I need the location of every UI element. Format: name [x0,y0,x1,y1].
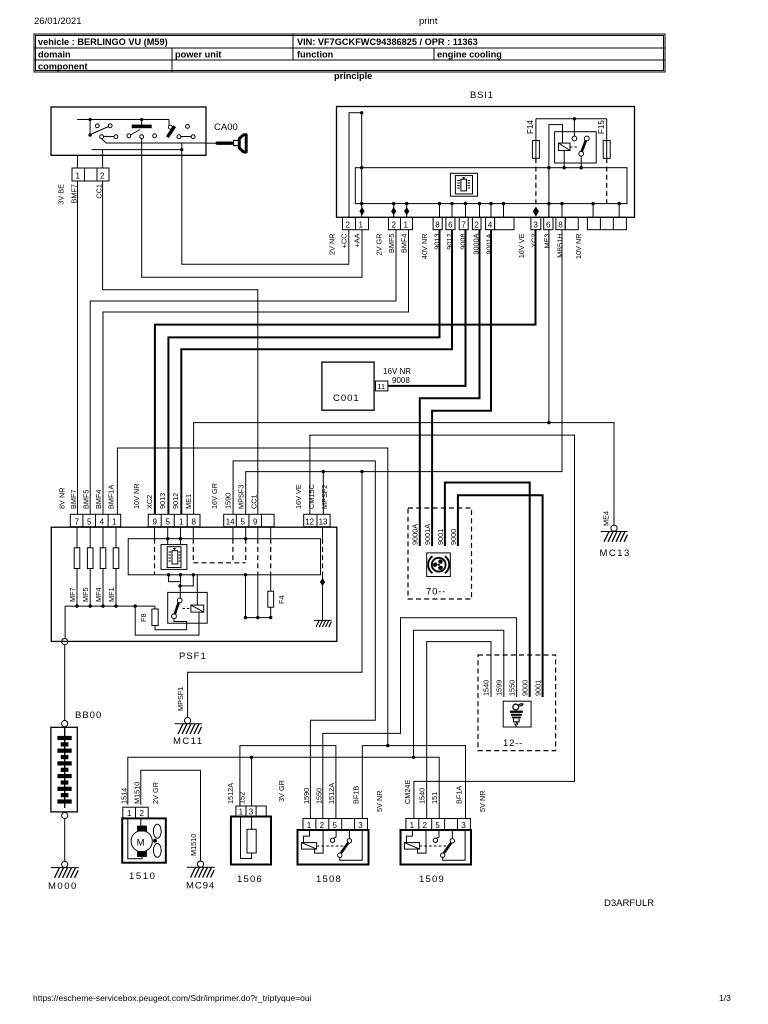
svg-text:8: 8 [192,517,197,526]
svg-text:70--: 70-- [426,587,446,598]
svg-text:4: 4 [100,517,105,526]
PSF1 pin stubs into box [77,527,323,548]
svg-text:8: 8 [435,220,440,229]
fuse F4 [268,575,286,618]
wire F14 top to F15 top [536,117,607,120]
svg-text:1510: 1510 [129,871,157,882]
CA00 internal bottom rails [92,139,206,156]
svg-text:5: 5 [87,517,92,526]
svg-text:2: 2 [140,809,145,818]
svg-text:1512A: 1512A [226,783,235,804]
BSI1 inner band [355,168,627,204]
svg-text:16V GR: 16V GR [210,483,219,509]
svg-text:MPSF3: MPSF3 [237,485,246,509]
svg-text:MF4: MF4 [94,587,103,602]
svg-text:1540: 1540 [482,680,491,696]
dashed F15 to band [606,158,608,203]
CA00 internal top bus [77,118,169,121]
svg-text:1508: 1508 [316,874,342,885]
BSI1 band connector symbol [450,173,477,196]
wire 1590 PSF1 to relay 1508 pin1 [233,461,375,819]
svg-text:domain: domain [38,50,71,60]
svg-text:BF1B: BF1B [352,786,361,804]
svg-text:5: 5 [333,821,338,830]
svg-text:BMF5: BMF5 [387,234,396,253]
BSI1 pin labels row4 [517,233,565,258]
svg-text:ME3: ME3 [543,234,552,249]
fuse F8 [139,606,187,630]
PSF1 pin labels group B [132,483,193,509]
svg-text:F8: F8 [139,613,148,622]
svg-text:10V NR: 10V NR [574,234,583,260]
wire 9000 fan 70 to 12 [458,495,543,697]
svg-text:2V GR: 2V GR [375,234,384,256]
svg-text:9001A: 9001A [423,524,432,545]
PSF1 supply bus [65,604,155,607]
wire 1550 12 to relay 1508 pin2 [323,618,517,819]
PSF1 pin labels group A [58,485,116,509]
svg-text:3: 3 [461,821,466,830]
relay 1509 [401,780,488,885]
BSI1 pin labels row3 [420,233,494,259]
relay 1508 [298,783,385,885]
svg-text:ME1: ME1 [184,494,193,509]
CA00 connector pins 1 and 2 [72,155,109,181]
PSF1 pin box C 14 5 9 blank [224,514,274,526]
svg-text:component: component [38,62,88,72]
PSF1 pin labels group C [210,483,259,509]
ground MC11 [173,687,204,747]
svg-text:2: 2 [474,220,479,229]
svg-text:40V NR: 40V NR [420,234,429,260]
svg-text:1: 1 [359,220,364,229]
svg-text:CC1: CC1 [250,494,259,509]
svg-text:CA00: CA00 [214,122,238,133]
svg-text:engine cooling: engine cooling [437,50,502,60]
PSF1 bottom terminal to battery [62,606,68,645]
svg-text:1590: 1590 [302,788,311,804]
svg-text:1: 1 [76,172,81,181]
svg-text:9013: 9013 [158,493,167,509]
svg-text:ME4: ME4 [602,511,611,526]
svg-text:1: 1 [127,809,132,818]
svg-text:vehicle : BERLINGO VU (M59): vehicle : BERLINGO VU (M59) [38,37,168,47]
svg-text:F15: F15 [597,120,606,134]
BSI1 pin labels row2 [375,234,409,256]
svg-text:12: 12 [305,517,314,526]
svg-text:13: 13 [319,517,328,526]
wire 1599 12 to junction [414,630,504,757]
svg-text:2: 2 [423,821,428,830]
svg-text:9000A: 9000A [411,524,420,545]
svg-text:BB00: BB00 [75,710,102,721]
svg-text:9: 9 [153,517,158,526]
svg-text:MPSF1: MPSF1 [176,687,185,711]
svg-text:function: function [297,50,334,60]
PSF1 inner band [128,539,320,575]
CA00 key symbol [206,135,246,152]
ground M000 [48,861,79,892]
wire 1540 12 to relay 1509 pin2 [427,642,491,819]
wire BMF1A PSF1 to BF1 line [117,448,389,747]
svg-text:9001: 9001 [436,529,445,545]
wire BMF4 PSF1 to BSI1 [103,230,409,515]
dashed F14 to pin3 [533,158,539,216]
svg-text:14: 14 [226,517,235,526]
svg-text:1: 1 [112,517,117,526]
svg-text:9: 9 [253,517,258,526]
svg-text:5: 5 [435,821,440,830]
svg-text:print: print [419,16,438,27]
svg-text:10V NR: 10V NR [132,483,141,509]
svg-text:9000: 9000 [520,680,529,696]
ground MC13 [600,511,631,559]
electric fan unit 70 dashed box [408,508,472,599]
svg-text:6: 6 [448,220,453,229]
wire BMF5 PSF1 to BSI1 [90,230,396,515]
svg-text:1506: 1506 [237,874,263,885]
BSI1 band bottom stubs and dots [360,168,621,218]
wire 9008 BSI1 to C001 pin11 [388,230,466,386]
resistor 1506 [226,780,286,885]
svg-text:9012: 9012 [171,493,180,509]
PSF1 relay top feed stubs [167,573,195,598]
PSF1 dashed internals [155,539,323,575]
fuse F14 [526,119,539,159]
svg-text:F14: F14 [526,120,535,134]
wire MPSF3 MPSF2 MB51H net [246,230,562,515]
wire PSF1 to battery [64,645,66,721]
svg-text:1550: 1550 [315,788,324,804]
wire ME3 BSI1 down [547,230,550,425]
PSF1 band connector symbol [161,545,187,570]
ground MC94 [186,834,215,892]
BSI1 pin row 1 (2|1) [343,217,369,229]
svg-text:D3ARFULR: D3ARFULR [604,898,654,909]
PSF1 pin box B 9 5 1 8 [148,514,200,526]
wire battery to M000 [64,819,66,862]
fuse MF1 [107,548,119,606]
svg-text:5: 5 [241,517,246,526]
svg-text:16V VE: 16V VE [294,484,303,509]
wire M1510 to MC94 [141,770,201,861]
svg-text:M1510: M1510 [133,782,142,804]
fuse MF5 [81,548,93,606]
svg-text:7: 7 [75,517,80,526]
CA00 switch contact set 1 [88,120,117,144]
svg-text:principle: principle [334,71,372,81]
svg-text:M1510: M1510 [189,834,198,856]
svg-text:power unit: power unit [175,50,221,60]
label 3V BE BMF7 [57,184,79,205]
svg-text:4: 4 [488,220,493,229]
wire +AA CA00 to BSI1 [142,155,362,277]
wire CM15C PSF1 to relay 1509 pin1 [310,435,575,818]
svg-text:9001: 9001 [533,680,542,696]
svg-text:1514: 1514 [120,788,129,804]
svg-text:2: 2 [320,821,325,830]
wire ME1 PSF1 to MC13 [194,423,614,525]
fuse F15 [597,119,610,159]
svg-text:1: 1 [410,821,415,830]
svg-text:1: 1 [239,808,244,817]
svg-text:+CC: +CC [340,234,349,249]
svg-text:3: 3 [249,808,254,817]
svg-text:2: 2 [392,220,397,229]
BSI1 outer box [337,107,635,218]
svg-text:1512A: 1512A [327,783,336,804]
svg-text:1509: 1509 [419,874,445,885]
svg-text:MF7: MF7 [68,587,77,602]
wire 9000A BSI1 to fan 70 [420,230,480,546]
thermal switch 12 dashed box [478,655,556,751]
PSF1 pin box D 12 13 [304,514,330,526]
svg-text:https://escheme-servicebox.peu: https://escheme-servicebox.peugeot.com/S… [33,993,312,1003]
BSI1 relay coil feed from pin6 [547,125,562,218]
svg-text:BSI1: BSI1 [470,90,494,101]
motor 1510 [120,782,166,882]
svg-text:M: M [137,838,145,849]
svg-text:11: 11 [378,382,386,391]
svg-text:1590: 1590 [224,493,233,509]
svg-text:MPSF2: MPSF2 [320,485,329,509]
svg-text:152: 152 [238,792,247,804]
svg-text:1599: 1599 [495,680,504,696]
svg-text:3V GR: 3V GR [277,780,286,802]
svg-text:1/3: 1/3 [719,993,731,1003]
svg-text:MC13: MC13 [600,548,631,559]
svg-text:3V BE: 3V BE [57,184,66,205]
svg-text:XC2: XC2 [530,234,539,248]
connector C001 [322,362,411,410]
svg-text:2: 2 [346,220,351,229]
svg-text:5V NR: 5V NR [478,791,487,813]
wire +CC CA00 to BSI1 [182,155,349,264]
BSI1 pin row 5 (right blanks) [587,217,626,229]
svg-text:12--: 12-- [503,738,523,749]
BSI1 pin row 3 (8 6 7 2 4 blank) [433,217,514,229]
svg-text:26/01/2021: 26/01/2021 [34,16,82,27]
CA00 switch contact set 2 (ACC bar) [127,120,157,139]
BSI1 internal feed from pin2 [349,111,363,217]
junction line 1514 152 1599 151 [128,756,439,819]
BSI1 pin row 2 (2|1) [389,217,413,229]
fuse MF7 [68,548,80,606]
battery BB00 [51,710,102,819]
svg-text:3: 3 [533,220,538,229]
PSF1 pin labels group D [294,484,329,509]
wire CC1 CA00 pin2 to PSF1 pin9 [103,181,258,514]
svg-text:1: 1 [179,517,184,526]
svg-text:1540: 1540 [418,788,427,804]
svg-text:8: 8 [558,220,563,229]
svg-text:MC11: MC11 [173,736,204,747]
svg-text:BMF1A: BMF1A [107,485,116,509]
BSI1 relay box [555,119,597,170]
svg-text:XC2: XC2 [145,495,154,509]
svg-text:16V NR: 16V NR [383,367,411,376]
svg-text:MF5: MF5 [81,587,90,602]
svg-text:M000: M000 [48,881,78,892]
wire BMF7 CA00 pin1 to PSF1 pin7 [77,181,79,514]
PSF1 internal ground [314,575,332,627]
BSI1 pin labels row1 [328,233,362,255]
svg-text:8V NR: 8V NR [58,488,67,510]
header table [34,34,665,72]
svg-text:9001A: 9001A [485,233,494,254]
svg-text:2V GR: 2V GR [151,782,160,804]
svg-text:5V NR: 5V NR [375,791,384,813]
junction diamonds under band [359,207,409,215]
svg-text:BF1A: BF1A [455,786,464,804]
PSF1 coil feed wire [135,606,199,635]
svg-text:6: 6 [546,220,551,229]
PSF1 pin box A 7 5 4 1 [70,514,120,526]
fuse MF4 [94,548,106,606]
svg-text:+AA: +AA [353,233,362,247]
svg-text:BMF7: BMF7 [69,490,78,509]
svg-text:PSF1: PSF1 [179,651,207,662]
svg-text:7: 7 [461,220,466,229]
svg-text:F4: F4 [277,595,286,604]
svg-text:MC94: MC94 [186,881,215,892]
wire XC2 PSF1 to BSI1 [155,230,536,515]
svg-text:2: 2 [100,172,105,181]
junction line 1512A [240,746,336,819]
svg-text:CM15C: CM15C [307,484,316,509]
svg-text:MB51H: MB51H [556,234,565,258]
PSF1 relay [168,575,208,635]
svg-text:C001: C001 [333,393,360,404]
junction line BF1B BF1A [362,746,465,819]
wire 9013 PSF1 to BSI1 [168,230,439,515]
svg-text:16V VE: 16V VE [517,233,526,258]
wire 9001 fan 70 to 12 [445,483,530,698]
ignition switch CA00 box [51,107,238,155]
svg-text:1550: 1550 [507,680,516,696]
svg-text:3: 3 [358,821,363,830]
svg-text:BMF4: BMF4 [400,234,409,253]
BSI1 pin row 4 (3 6 8 blank) [531,217,578,229]
PSF1 internal CC1 MPSF3 F4 junction line [244,573,273,619]
svg-text:1: 1 [404,220,409,229]
svg-text:1: 1 [307,821,312,830]
svg-text:VIN: VF7GCKFWC94386825 / OPR :: VIN: VF7GCKFWC94386825 / OPR : 11363 [297,37,478,47]
wire 9012 PSF1 to BSI1 [181,230,452,515]
wire 9001A BSI1 to fan 70 [432,230,491,546]
CA00 switch contact set 3 (start) [167,120,195,139]
svg-text:5: 5 [166,517,171,526]
svg-text:151: 151 [430,792,439,804]
svg-text:2V NR: 2V NR [328,234,337,256]
svg-text:CM24E: CM24E [403,780,412,804]
wire MPSF1 to MC11 [188,472,362,718]
svg-text:9000: 9000 [449,529,458,545]
svg-text:BMF4: BMF4 [94,490,103,509]
PSF1 outer box [51,527,337,641]
svg-text:9008: 9008 [392,376,410,385]
svg-text:BMF5: BMF5 [82,490,91,509]
svg-text:MF1: MF1 [107,587,116,602]
